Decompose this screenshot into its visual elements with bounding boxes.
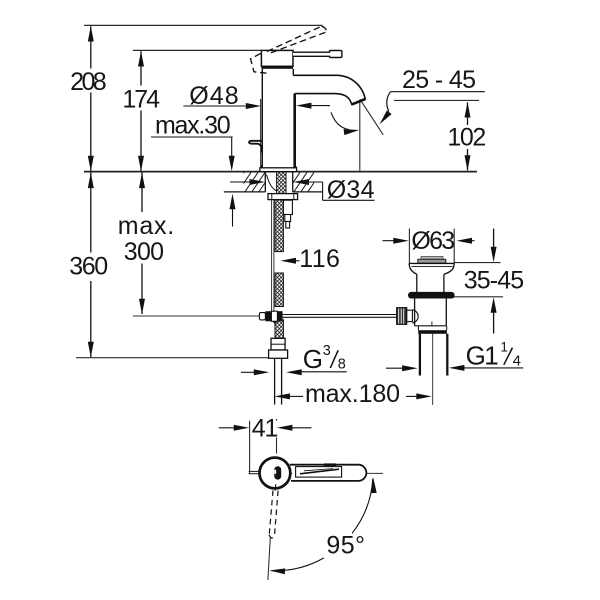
svg-text:max.30: max.30	[155, 111, 231, 139]
svg-text:174: 174	[122, 85, 160, 113]
svg-text:Ø63: Ø63	[411, 227, 455, 255]
svg-text:4: 4	[513, 352, 521, 369]
svg-text:3: 3	[323, 343, 331, 359]
svg-text:41: 41	[252, 414, 279, 442]
svg-text:35-45: 35-45	[464, 267, 525, 295]
svg-text:1: 1	[484, 340, 498, 370]
svg-text:Ø34: Ø34	[327, 176, 375, 204]
svg-text:max.: max.	[118, 212, 174, 240]
svg-text:208: 208	[70, 68, 107, 96]
svg-text:95°: 95°	[326, 531, 365, 559]
svg-text:G: G	[466, 340, 486, 370]
svg-text:116: 116	[299, 245, 340, 273]
svg-text:1: 1	[500, 339, 508, 354]
svg-text:max.180: max.180	[305, 380, 400, 408]
svg-text:300: 300	[124, 238, 164, 266]
svg-text:25 - 45: 25 - 45	[402, 66, 476, 94]
svg-text:102: 102	[447, 123, 486, 151]
svg-text:Ø48: Ø48	[189, 82, 239, 110]
svg-text:G: G	[303, 344, 323, 374]
svg-text:8: 8	[338, 356, 346, 372]
svg-text:360: 360	[69, 253, 108, 281]
